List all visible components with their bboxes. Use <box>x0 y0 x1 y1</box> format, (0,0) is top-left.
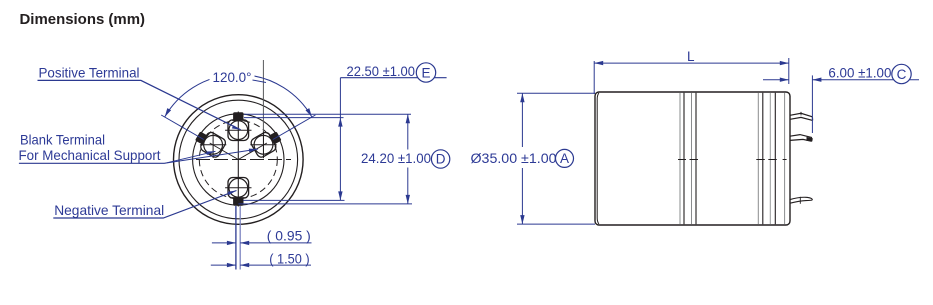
horizontal centerline <box>196 159 291 161</box>
svg-text:E: E <box>421 65 430 80</box>
leader negative terminal <box>53 191 236 219</box>
svg-text:Dimensions (mm): Dimensions (mm) <box>20 11 146 28</box>
arc arrowhead right <box>306 108 312 117</box>
dimension 0.95 left line <box>212 242 236 244</box>
angle dimension radial extension line right <box>273 115 316 140</box>
svg-text:120.0°: 120.0° <box>213 70 252 85</box>
blank terminal (left) <box>192 127 227 159</box>
dimension L line <box>594 62 789 64</box>
dimension 1.50 right line <box>240 264 311 266</box>
svg-text:For Mechanical Support: For Mechanical Support <box>19 148 161 163</box>
white mask for diameter label <box>468 147 556 168</box>
leader from 120.0 label to arc <box>253 80 267 83</box>
white mask for 24.20 label <box>358 150 451 168</box>
case bottom rolled lip line <box>597 93 599 224</box>
balloon C <box>892 64 911 83</box>
blank terminal (right) <box>249 127 284 159</box>
dimension C 6.00 left tail <box>763 79 789 81</box>
svg-text:A: A <box>560 151 569 166</box>
sleeve seam line 2 <box>683 93 685 225</box>
dimension A extension line bottom <box>517 223 595 225</box>
dimension E label line <box>340 77 446 79</box>
dimension D extension line bottom <box>238 203 412 205</box>
sleeve seam line 3 <box>691 93 693 225</box>
leader to right blank terminal <box>165 149 258 163</box>
svg-text:D: D <box>436 152 446 167</box>
terminal pin 3 side view <box>790 197 813 204</box>
dimension A vertical line <box>521 93 523 224</box>
white mask for 120.0 label <box>210 68 255 85</box>
crimp line 2 <box>762 93 764 225</box>
angle dimension radial extension line left <box>161 115 204 140</box>
angle dimension arc 120 degrees <box>165 75 312 117</box>
svg-text:24.20 ±1.00: 24.20 ±1.00 <box>361 151 431 166</box>
svg-text:Blank Terminal: Blank Terminal <box>20 133 105 148</box>
svg-text:( 0.95 ): ( 0.95 ) <box>267 229 311 244</box>
dimension L extension line right <box>788 58 790 84</box>
svg-text:Negative Terminal: Negative Terminal <box>54 203 164 218</box>
pin projection line light <box>239 206 241 270</box>
radial centerline to right blank terminal <box>238 143 267 160</box>
sleeve seam line 4 <box>695 93 697 225</box>
svg-text:Ø35.00 ±1.00: Ø35.00 ±1.00 <box>471 151 557 166</box>
vertical centerline <box>237 112 239 207</box>
pin projection line dark <box>235 206 237 270</box>
capacitor top view outer circle <box>174 95 304 225</box>
svg-text:L: L <box>687 49 695 64</box>
positive terminal (top) <box>225 112 251 140</box>
arc arrowhead left <box>165 108 171 117</box>
svg-text:6.00 ±1.00: 6.00 ±1.00 <box>828 66 891 81</box>
crimp line 1 <box>757 93 759 225</box>
top view dashed pitch circle <box>199 121 277 199</box>
leader arrowhead positive <box>232 125 241 130</box>
leader blank terminal underline <box>19 162 165 164</box>
svg-text:Positive Terminal: Positive Terminal <box>39 66 140 81</box>
dimension C extension line at pin tip <box>811 75 813 133</box>
crimp line 4 <box>774 93 776 225</box>
top view second circle <box>179 100 298 219</box>
side view capacitor body <box>595 92 790 225</box>
dimension D vertical line <box>407 114 409 204</box>
terminal pin 1 side view <box>790 112 813 121</box>
crimp line 3 <box>769 93 771 225</box>
dimension E extension line bottom <box>243 199 344 201</box>
svg-text:22.50 ±1.00: 22.50 ±1.00 <box>347 64 416 79</box>
dimension A extension line top <box>517 92 595 94</box>
negative terminal (bottom) <box>225 178 251 206</box>
dimension D 24.20 extension line top <box>244 113 411 115</box>
dimension E 22.50 extension line top <box>244 117 344 119</box>
radial centerline to left blank terminal <box>210 143 239 160</box>
dimension C right line <box>812 79 919 81</box>
dimension 1.50 left line <box>211 264 236 266</box>
svg-text:( 1.50 ): ( 1.50 ) <box>269 251 310 266</box>
top view inner circle <box>193 114 284 205</box>
svg-text:C: C <box>897 67 907 82</box>
terminal pin 2 side view <box>790 135 813 142</box>
balloon E <box>416 63 435 82</box>
balloon A <box>556 149 574 167</box>
centerline ticks <box>678 159 787 161</box>
balloon D <box>431 150 449 168</box>
sleeve seam line 1 <box>679 93 681 225</box>
end cap line <box>784 93 786 225</box>
dimension E vertical line <box>339 78 341 201</box>
dimension L extension line left <box>593 61 595 94</box>
gray extension line above right terminal <box>262 60 264 158</box>
dimension 0.95 right line <box>240 242 311 244</box>
leader positive terminal <box>38 80 241 129</box>
leader to left blank terminal <box>165 151 216 163</box>
